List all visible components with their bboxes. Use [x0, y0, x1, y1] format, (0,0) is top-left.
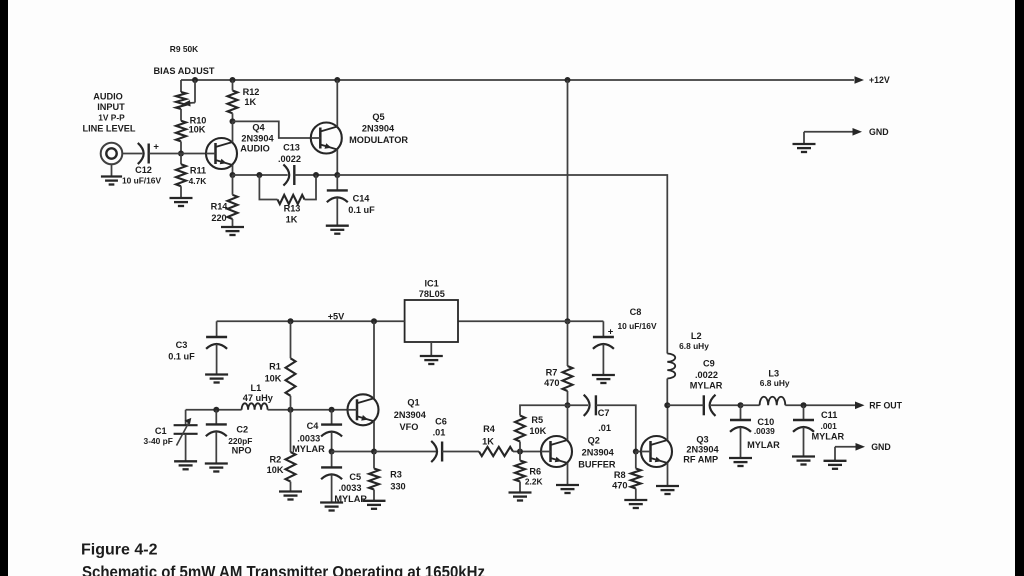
svg-text:L3: L3 — [768, 369, 779, 379]
junction R13 left — [256, 172, 262, 178]
label R7 value — [544, 378, 559, 388]
label C8 — [630, 307, 642, 317]
svg-text:10 uF/16V: 10 uF/16V — [122, 176, 162, 186]
label Q1 — [407, 398, 419, 408]
ground C11 — [792, 457, 815, 465]
svg-text:C14: C14 — [353, 194, 371, 204]
label C11 material — [811, 432, 844, 442]
wire Q4 emitter — [232, 165, 234, 175]
label C13 value — [278, 154, 301, 164]
svg-text:BUFFER: BUFFER — [578, 460, 616, 470]
label R13 value — [286, 215, 298, 225]
svg-text:1K: 1K — [286, 215, 298, 225]
resistor R6 — [515, 461, 525, 482]
label R5 value — [529, 426, 546, 436]
svg-text:220pF: 220pF — [228, 436, 252, 446]
label C5 material — [334, 494, 367, 504]
wire R9 to R10 — [180, 109, 182, 121]
label R11 value — [189, 176, 207, 186]
resistor R4 — [479, 447, 513, 456]
svg-text:GND: GND — [871, 442, 891, 452]
svg-text:C11: C11 — [821, 410, 837, 420]
label R11 — [190, 165, 206, 175]
svg-text:2N3904: 2N3904 — [362, 124, 395, 134]
resistor R1 — [286, 358, 296, 396]
svg-text:0.1 uF: 0.1 uF — [348, 205, 375, 215]
label C9 — [703, 359, 715, 369]
svg-text:R13: R13 — [284, 204, 301, 214]
wire base node to R6 — [519, 452, 521, 461]
label R9 value — [170, 44, 198, 54]
svg-text:C3: C3 — [176, 340, 188, 350]
wire Q2 emitter — [567, 463, 569, 485]
svg-text:R5: R5 — [531, 415, 543, 425]
wire Q1 emitter — [373, 421, 375, 451]
wire R7 to C7 node — [567, 391, 569, 405]
wire +5V to R1 — [290, 321, 292, 358]
svg-text:LINE LEVEL: LINE LEVEL — [82, 123, 135, 133]
label Q1 type — [394, 410, 427, 420]
svg-text:4.7K: 4.7K — [189, 176, 207, 186]
junction base line / R1 R2 — [288, 407, 294, 413]
junction Q4 emitter node — [230, 172, 236, 178]
label C9 value — [695, 370, 718, 380]
resistor R7 — [563, 366, 573, 391]
capacitor C6 — [431, 441, 442, 462]
label C12 polarity — [153, 141, 159, 152]
svg-text:R3: R3 — [390, 470, 402, 480]
svg-text:C8: C8 — [630, 307, 642, 317]
node +12V arrow terminal — [855, 75, 890, 85]
junction +5V / R1 — [288, 318, 294, 324]
wire +12V feed down to IC1 input — [567, 80, 569, 321]
svg-text:10K: 10K — [189, 124, 206, 134]
label R14 value — [211, 213, 226, 223]
svg-text:6.8 uHy: 6.8 uHy — [679, 341, 709, 351]
wire emitter node to R3 — [373, 452, 375, 469]
svg-text:1K: 1K — [482, 436, 494, 446]
wire +5V rail — [217, 320, 405, 322]
label C11 — [821, 410, 837, 420]
label Q5 type — [362, 124, 395, 134]
svg-text:MYLAR: MYLAR — [292, 444, 325, 454]
svg-text:2N3904: 2N3904 — [582, 448, 615, 458]
capacitor C1 — [174, 410, 198, 462]
svg-text:BIAS ADJUST: BIAS ADJUST — [154, 66, 215, 76]
wire L3 to RF OUT — [785, 404, 855, 406]
svg-text:Q4: Q4 — [252, 123, 265, 133]
svg-text:.001: .001 — [821, 421, 838, 431]
label R7 — [546, 368, 558, 378]
svg-text:.0033: .0033 — [297, 434, 320, 444]
ground C5 — [320, 503, 343, 511]
label C14 — [353, 194, 371, 204]
label C5 value — [339, 483, 362, 493]
label C8 value — [617, 321, 657, 331]
capacitor C10 — [730, 405, 751, 458]
svg-text:MODULATOR: MODULATOR — [349, 135, 408, 145]
wire input node to R11 — [180, 154, 182, 165]
capacitor C9 — [704, 395, 716, 416]
ground R3 — [363, 490, 386, 509]
svg-text:Figure 4-2: Figure 4-2 — [81, 542, 158, 559]
junction C7 node — [565, 402, 571, 408]
label C1 value — [144, 436, 173, 446]
node GND arrow terminal bottom — [856, 442, 891, 452]
svg-text:GND: GND — [869, 127, 889, 137]
resistor R10 — [176, 121, 186, 142]
label C14 value — [348, 205, 375, 215]
ground GND terminal bottom — [824, 447, 847, 469]
label R12 — [243, 87, 260, 97]
capacitor C8 — [593, 321, 614, 375]
wire R9 wiper to rail — [183, 80, 195, 107]
transistor Q2 — [541, 436, 572, 467]
wire R5 to base node — [519, 442, 521, 452]
ground C2 — [205, 464, 228, 472]
node GND arrow terminal top — [853, 127, 889, 137]
inductor L1 — [242, 403, 268, 410]
ground IC1 — [420, 342, 443, 364]
label C10 — [757, 417, 774, 427]
label R2 — [270, 454, 282, 464]
svg-text:R7: R7 — [546, 368, 558, 378]
ground C14 — [326, 226, 349, 234]
svg-text:220: 220 — [211, 213, 226, 223]
svg-text:C12: C12 — [135, 165, 152, 175]
label L2 value — [679, 341, 709, 351]
label Q4 function — [240, 144, 270, 154]
label figure caption — [82, 564, 485, 576]
junction Q1 emitter node — [371, 449, 377, 455]
svg-text:.01: .01 — [433, 428, 446, 438]
label figure number — [81, 542, 158, 559]
svg-text:47 uHy: 47 uHy — [243, 393, 274, 403]
junction Q5 emitter node — [334, 172, 340, 178]
svg-text:Q5: Q5 — [372, 112, 384, 122]
svg-text:+: + — [608, 327, 614, 338]
label IC1 — [424, 279, 438, 289]
svg-text:6.8 uHy: 6.8 uHy — [760, 378, 790, 388]
svg-text:.0039: .0039 — [754, 426, 775, 436]
svg-text:2N3904: 2N3904 — [241, 134, 274, 144]
svg-text:470: 470 — [612, 480, 627, 490]
label Q4 type — [241, 134, 274, 144]
svg-text:C7: C7 — [598, 408, 610, 418]
resistor R8 — [631, 469, 641, 489]
label R5 — [531, 415, 543, 425]
wire GND terminal top — [804, 131, 853, 133]
capacitor C7 — [584, 395, 596, 416]
svg-text:R8: R8 — [614, 470, 626, 480]
label C12 — [135, 165, 152, 175]
ground GND terminal top — [793, 132, 816, 152]
potentiometer R9 — [176, 92, 186, 109]
ground C10 — [729, 458, 752, 466]
wire +12V supply rail — [181, 79, 854, 81]
capacitor C14 — [327, 175, 348, 226]
label L1 value — [243, 393, 274, 403]
resistor R5 — [515, 416, 525, 442]
label L3 — [768, 369, 779, 379]
label IC1 type — [419, 289, 445, 299]
svg-text:L1: L1 — [251, 383, 262, 393]
wire GND terminal bottom — [835, 446, 856, 448]
capacitor C12 — [138, 143, 149, 164]
wire modulated supply to L2 — [337, 175, 667, 354]
label C7 — [598, 408, 610, 418]
label R14 — [211, 202, 229, 212]
capacitor C11 — [793, 405, 814, 456]
svg-text:0.1 uF: 0.1 uF — [168, 352, 195, 362]
label BIAS ADJUST — [154, 66, 215, 76]
svg-text:C2: C2 — [236, 425, 248, 435]
junction C10 node — [738, 402, 744, 408]
svg-text:330: 330 — [390, 482, 405, 492]
svg-text:RF AMP: RF AMP — [683, 454, 718, 464]
svg-text:C9: C9 — [703, 359, 715, 369]
svg-text:R14: R14 — [211, 202, 229, 212]
junction rail / Q5 collector — [334, 77, 340, 83]
wire Q5 emitter — [336, 149, 338, 175]
svg-text:.01: .01 — [598, 423, 611, 433]
label R3 value — [390, 482, 405, 492]
svg-text:R4: R4 — [483, 424, 496, 434]
ground R2 — [279, 482, 302, 500]
wire IC1 node to R7 — [567, 321, 569, 366]
wire R4 to Q2 base — [513, 451, 541, 453]
label C11 value — [821, 421, 838, 431]
label C6 value — [433, 428, 446, 438]
label Q3 — [696, 434, 708, 444]
label AUDIO INPUT — [82, 92, 135, 134]
wire Q3 base — [636, 451, 641, 453]
label R12 value — [244, 97, 256, 107]
label C1 — [155, 426, 167, 436]
ground R6 — [509, 482, 532, 501]
label R4 — [483, 424, 496, 434]
junction base line / C4 — [329, 407, 335, 413]
svg-text:10K: 10K — [529, 426, 546, 436]
junction rail / R9 wiper — [192, 77, 198, 83]
svg-text:10K: 10K — [267, 465, 284, 475]
label Q5 — [372, 112, 384, 122]
svg-text:2N3904: 2N3904 — [394, 410, 427, 420]
label C5 — [349, 472, 361, 482]
capacitor C3 — [206, 321, 227, 374]
resistor R14 — [228, 195, 238, 219]
capacitor C4 — [321, 410, 342, 452]
label R2 value — [267, 465, 284, 475]
label C10 value — [754, 426, 775, 436]
label Q5 function — [349, 135, 408, 145]
junction C11 node — [801, 402, 807, 408]
ground R11 — [170, 186, 193, 206]
wire R13 left leg — [259, 175, 277, 200]
label Q3 type — [686, 445, 719, 455]
junction IC1 input node — [565, 318, 571, 324]
svg-text:2.2K: 2.2K — [525, 477, 543, 487]
wire Q4 emitter bus — [233, 174, 288, 176]
label C9 material — [690, 380, 723, 390]
ground R14 — [221, 219, 244, 235]
transistor Q1 — [348, 394, 379, 425]
svg-text:10 uF/16V: 10 uF/16V — [617, 321, 657, 331]
svg-text:3-40 pF: 3-40 pF — [144, 436, 173, 446]
wire connector to C12 — [122, 153, 142, 155]
transistor Q3 — [641, 436, 672, 467]
wire VFO base line — [186, 409, 242, 411]
svg-text:Q3: Q3 — [696, 434, 708, 444]
wire base line to R2 — [290, 410, 292, 452]
ground Q3 emitter — [656, 486, 679, 494]
label R4 value — [482, 436, 494, 446]
label C2 — [236, 425, 248, 435]
label Q2 function — [578, 460, 616, 470]
label +5V — [328, 311, 345, 321]
wire Q1 collector — [373, 321, 375, 398]
label R10 value — [189, 124, 206, 134]
svg-text:R2: R2 — [270, 454, 282, 464]
label Q2 — [588, 436, 600, 446]
wire C4 to Q1 emitter — [332, 451, 374, 453]
wire Q4 emitter to R14 — [232, 175, 234, 195]
wire R13 right leg — [305, 175, 317, 200]
label C2 material — [232, 446, 252, 456]
svg-text:R12: R12 — [243, 87, 260, 97]
label C4 material — [292, 444, 325, 454]
svg-text:NPO: NPO — [232, 446, 252, 456]
label C3 value — [168, 352, 195, 362]
label R3 — [390, 470, 402, 480]
svg-text:78L05: 78L05 — [419, 289, 445, 299]
svg-text:1K: 1K — [244, 97, 256, 107]
svg-text:C1: C1 — [155, 426, 167, 436]
junction rail / +12V feed down — [565, 77, 571, 83]
svg-text:INPUT: INPUT — [97, 102, 125, 112]
label R8 — [614, 470, 626, 480]
junction Q2 base node — [517, 449, 523, 455]
wire rail to R12 — [232, 80, 234, 91]
wire C9 to C10 node — [711, 404, 741, 406]
svg-text:+: + — [153, 141, 159, 152]
label C4 value — [297, 434, 320, 444]
svg-text:L2: L2 — [691, 331, 702, 341]
wire rail corner to R9 top — [180, 80, 182, 92]
node RF OUT arrow terminal — [855, 401, 903, 411]
label R1 value — [265, 374, 282, 384]
svg-text:C5: C5 — [349, 472, 361, 482]
junction emitter line / C4 C5 — [329, 449, 335, 455]
wire C13 to Q5 emitter node — [294, 174, 337, 176]
capacitor C13 — [283, 164, 294, 185]
ground C8 — [592, 375, 615, 383]
svg-text:VFO: VFO — [400, 422, 419, 432]
ground C3 — [205, 375, 228, 383]
wire base node to R8 — [635, 452, 637, 469]
resistor R11 — [176, 164, 186, 186]
junction base line / C2 — [213, 407, 219, 413]
wire Q3 emitter — [667, 463, 669, 486]
transistor Q4 — [206, 138, 237, 169]
label Q1 function — [400, 422, 419, 432]
label R8 value — [612, 480, 627, 490]
wire Q5 collector to rail — [336, 80, 338, 127]
resistor R2 — [286, 452, 296, 482]
svg-text:.0022: .0022 — [695, 370, 718, 380]
resistor R3 — [369, 469, 379, 490]
svg-text:C13: C13 — [283, 143, 300, 153]
connector audio input — [101, 143, 123, 165]
wire Q3 collector — [667, 405, 669, 440]
label R6 — [529, 466, 541, 476]
junction Q4 collector node — [230, 118, 236, 124]
junction +5V / Q1 collector — [371, 318, 377, 324]
svg-text:+5V: +5V — [328, 311, 345, 321]
label C12 value — [122, 176, 162, 186]
ground Q2 emitter — [556, 485, 579, 493]
wire R1 to base line — [290, 396, 292, 410]
wire C10 node to L3 — [741, 404, 760, 406]
wire R10 to input node — [180, 141, 182, 153]
wire IC1 input line — [458, 320, 603, 322]
transistor Q5 — [311, 123, 342, 154]
ground C1 — [174, 461, 197, 469]
junction input node — [178, 151, 184, 157]
svg-text:Schematic of 5mW AM Transmitte: Schematic of 5mW AM Transmitter Operatin… — [82, 564, 485, 576]
label Q4 — [252, 123, 265, 133]
inductor L2 — [667, 354, 675, 379]
label Q3 function — [683, 454, 718, 464]
svg-text:C4: C4 — [307, 421, 320, 431]
junction R13 right — [313, 172, 319, 178]
capacitor C2 — [206, 410, 227, 464]
label L1 — [251, 383, 262, 393]
svg-text:1V P-P: 1V P-P — [98, 113, 125, 123]
wire output node to C9 — [667, 404, 704, 406]
label C8 polarity — [608, 327, 614, 338]
label C6 — [435, 417, 447, 427]
label C4 — [307, 421, 320, 431]
svg-text:C6: C6 — [435, 417, 447, 427]
resistor R12 — [228, 91, 238, 114]
wire Q1 emitter to C6 — [374, 451, 436, 453]
inductor L3 — [760, 397, 786, 406]
regulator IC1 — [405, 300, 458, 342]
svg-text:.0033: .0033 — [339, 483, 362, 493]
svg-text:Q2: Q2 — [588, 436, 600, 446]
wire L2 to output node — [666, 379, 668, 406]
wire C12 to Q4 base — [149, 153, 207, 155]
wire L1 to Q1 base — [268, 409, 348, 411]
label Q2 type — [582, 448, 615, 458]
label R10 — [190, 116, 207, 126]
label L2 — [691, 331, 702, 341]
label C7 value — [598, 423, 611, 433]
ground R8 — [624, 489, 647, 509]
label R13 — [284, 204, 301, 214]
wire Q4 collector to Q5 base — [233, 121, 311, 138]
svg-text:+12V: +12V — [869, 75, 890, 85]
svg-text:R1: R1 — [269, 362, 281, 372]
svg-text:MYLAR: MYLAR — [811, 432, 844, 442]
capacitor C5 — [321, 452, 342, 503]
resistor R13 — [278, 195, 305, 204]
label C3 — [176, 340, 188, 350]
svg-text:470: 470 — [544, 378, 559, 388]
wire C7 node to C7 — [568, 404, 589, 406]
svg-text:R9 50K: R9 50K — [170, 44, 198, 54]
